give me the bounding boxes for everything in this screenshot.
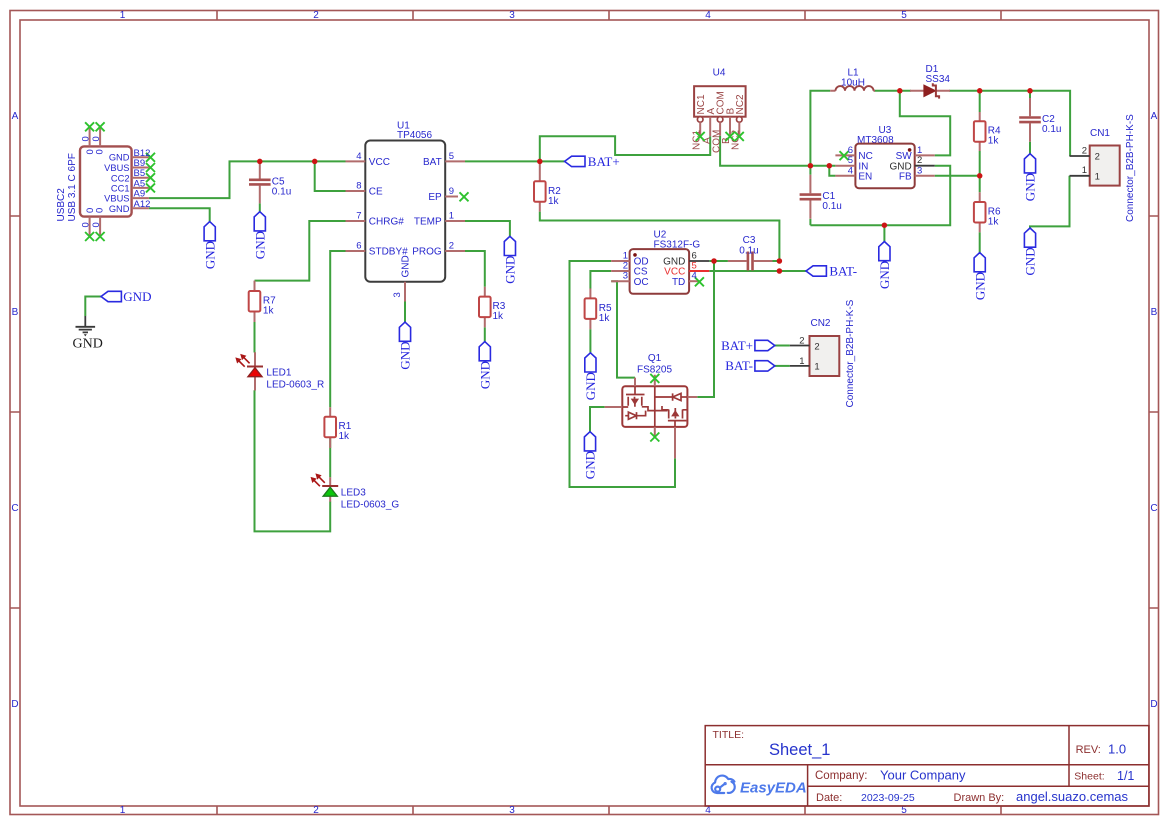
wire D1 cathode to CN1 pin2: [949, 91, 1070, 156]
svg-text:LED-0603_R: LED-0603_R: [266, 380, 324, 391]
capacitor C5 0.1u: [249, 163, 291, 204]
wire U3 GND rail: [810, 166, 950, 226]
svg-text:5: 5: [449, 151, 454, 162]
svg-text:LED-0603_G: LED-0603_G: [341, 499, 400, 510]
svg-text:1/1: 1/1: [1117, 769, 1134, 783]
svg-text:0: 0: [81, 136, 92, 141]
wire U2 GND6 to C3 left: [709, 260, 728, 262]
svg-text:8: 8: [356, 180, 361, 191]
svg-text:2: 2: [313, 805, 319, 816]
svg-text:GND: GND: [123, 289, 151, 304]
svg-text:Drawn By:: Drawn By:: [954, 792, 1005, 804]
svg-text:0: 0: [91, 136, 102, 141]
wire LED common bottom: [255, 390, 331, 531]
svg-text:1k: 1k: [988, 217, 1000, 228]
net flag BAT+ at CN2: [721, 338, 775, 353]
svg-text:CN1: CN1: [1090, 128, 1110, 139]
svg-text:2: 2: [799, 335, 804, 346]
svg-text:C: C: [1150, 503, 1157, 514]
svg-text:CN2: CN2: [810, 318, 830, 329]
svg-text:0.1u: 0.1u: [1042, 124, 1061, 135]
wire USB A12 to GND flag: [149, 208, 210, 221]
svg-text:U4: U4: [713, 68, 726, 79]
net flag BAT- at CN2: [725, 358, 775, 373]
svg-text:3: 3: [509, 10, 515, 21]
wire STDBY# to R1: [330, 251, 345, 407]
wire C5 to GND flag: [259, 203, 261, 211]
svg-text:GND: GND: [73, 337, 103, 352]
svg-text:1: 1: [814, 362, 819, 373]
svg-text:GND: GND: [109, 204, 130, 214]
capacitor C2 0.1u: [1019, 98, 1061, 142]
junction at C5/VCC: [257, 159, 263, 165]
svg-text:TEMP: TEMP: [414, 217, 442, 228]
svg-text:Connector_B2B-PH-K-S: Connector_B2B-PH-K-S: [845, 299, 856, 407]
wire R4 leads: [979, 91, 981, 176]
svg-text:1: 1: [1082, 165, 1087, 176]
svg-text:NC2: NC2: [735, 94, 746, 114]
svg-text:2: 2: [1095, 152, 1100, 163]
svg-text:D: D: [11, 699, 18, 710]
svg-text:1: 1: [1095, 172, 1100, 183]
wire PROG to R3: [465, 251, 485, 287]
svg-text:1k: 1k: [493, 311, 505, 322]
svg-text:5: 5: [901, 10, 907, 21]
svg-text:B: B: [12, 307, 19, 318]
wire OC to Q1 gate: [611, 281, 635, 377]
LED LED1 LED-0603_R: [237, 352, 325, 390]
svg-text:2: 2: [814, 341, 819, 352]
svg-text:B: B: [1151, 307, 1158, 318]
net flag GND under USB A12: [202, 222, 217, 270]
svg-text:4: 4: [356, 151, 361, 162]
svg-text:EP: EP: [428, 192, 442, 203]
svg-text:PROG: PROG: [412, 247, 442, 258]
svg-text:EasyEDA: EasyEDA: [740, 780, 807, 797]
wire FB to R4/R6: [935, 175, 980, 177]
wire R6 leads: [979, 176, 981, 253]
wire EN jog: [829, 166, 835, 176]
connector CN2 B2B-PH-K-S: [790, 299, 856, 407]
junction at C2 top: [1027, 88, 1033, 94]
wire BAT+ riser to U4 A: [540, 136, 710, 161]
svg-text:2: 2: [1082, 145, 1087, 156]
svg-text:BAT-: BAT-: [725, 358, 753, 373]
svg-text:Date:: Date:: [816, 792, 842, 804]
svg-text:1: 1: [120, 805, 126, 816]
svg-text:Q1: Q1: [648, 353, 662, 364]
wire U2 VCC5 to BAT- flag: [709, 270, 806, 272]
net flag GND under CN1: [1023, 228, 1038, 276]
net flag GND under R6: [972, 253, 987, 301]
svg-text:Sheet:: Sheet:: [1074, 771, 1104, 783]
wire OD to Q1 bottom right: [570, 261, 676, 487]
net flag GND under C2: [1023, 154, 1038, 202]
svg-text:L1: L1: [847, 67, 859, 78]
svg-text:4: 4: [848, 165, 853, 176]
svg-text:USBC2: USBC2: [56, 188, 67, 222]
svg-text:VCC: VCC: [369, 157, 390, 168]
capacitor C3 0.1u: [728, 235, 773, 271]
svg-text:6: 6: [356, 240, 361, 251]
net flag GND under U3: [877, 242, 892, 290]
wire U4 COM to U3 IN: [720, 136, 835, 166]
svg-text:USB 3.1 C 6PF: USB 3.1 C 6PF: [67, 153, 78, 221]
net flag BAT- at U2: [806, 263, 857, 278]
junction at FB/R4/R6: [977, 173, 983, 179]
svg-text:0: 0: [91, 222, 102, 227]
resistor R4 1k: [974, 112, 1001, 151]
svg-text:Company:: Company:: [815, 770, 867, 782]
svg-text:BAT+: BAT+: [721, 338, 753, 353]
IC U1 TP4056: [346, 120, 469, 301]
IC U2 FS312F-G: [611, 229, 709, 294]
svg-text:1: 1: [799, 356, 804, 367]
wire SW jog: [900, 91, 950, 156]
wire L1 left / C1 node: [810, 91, 830, 175]
net flag GND left: [101, 289, 151, 304]
svg-text:C: C: [11, 503, 18, 514]
junction at R4 top: [977, 88, 983, 94]
svg-text:3: 3: [509, 805, 515, 816]
svg-text:7: 7: [356, 210, 361, 221]
LED LED3 LED-0603_G: [312, 475, 400, 511]
junction at BAT/R2: [537, 159, 543, 165]
svg-text:LED1: LED1: [266, 368, 291, 379]
svg-text:5: 5: [901, 805, 907, 816]
svg-text:FB: FB: [899, 171, 912, 182]
net flag GND under R5: [583, 353, 598, 401]
svg-text:0.1u: 0.1u: [272, 186, 291, 197]
IC U3 MT3608: [835, 125, 934, 188]
svg-text:9: 9: [449, 186, 454, 197]
resistor R7 1k: [249, 281, 276, 322]
svg-text:CE: CE: [369, 187, 383, 198]
svg-text:1k: 1k: [339, 431, 351, 442]
svg-text:D: D: [1150, 699, 1157, 710]
svg-text:VBUS: VBUS: [104, 194, 129, 204]
net flag BAT+ at U1: [565, 154, 620, 169]
svg-text:TD: TD: [672, 277, 685, 288]
svg-text:GND: GND: [109, 153, 130, 163]
diode D1 SS34: [910, 64, 950, 99]
resistor R6 1k: [974, 192, 1001, 232]
svg-text:Connector_B2B-PH-K-S: Connector_B2B-PH-K-S: [1125, 114, 1136, 222]
svg-text:0.1u: 0.1u: [822, 201, 841, 212]
wire R1 to LED3: [329, 437, 331, 477]
wire BAT+ flag to CN2 pin2: [775, 345, 790, 347]
svg-text:BAT-: BAT-: [829, 263, 857, 278]
svg-text:3: 3: [917, 165, 922, 176]
svg-text:TITLE:: TITLE:: [713, 729, 745, 741]
wire C1 bottom: [809, 219, 811, 225]
svg-text:1.0: 1.0: [1108, 742, 1126, 757]
svg-text:2: 2: [449, 240, 454, 251]
net flag GND under U1 pin3: [398, 322, 413, 370]
svg-text:VBUS: VBUS: [104, 163, 129, 173]
wire U1 GND3 to flag: [404, 302, 406, 323]
wire GND flag to ground symbol: [85, 297, 101, 317]
wire BAT- flag to CN2 pin1: [775, 365, 790, 367]
wire Q1 left to GND flag: [590, 407, 605, 432]
transistor Q1 FS8205: [605, 353, 698, 458]
junction at GND rail: [882, 222, 888, 228]
junction at IN/EN: [827, 163, 833, 169]
svg-text:Sheet_1: Sheet_1: [769, 741, 830, 759]
svg-text:3: 3: [623, 271, 628, 282]
junction at IN/L1: [808, 163, 814, 169]
svg-text:3: 3: [392, 292, 403, 297]
wire R2 bottom to C3 right: [540, 212, 780, 261]
svg-text:0.1u: 0.1u: [739, 245, 758, 256]
wire R5 to GND flag: [589, 329, 591, 353]
wire VBUS: USB A9 to U1 VCC: [149, 161, 346, 198]
svg-text:SS34: SS34: [926, 74, 951, 85]
connector USBC2 USB 3.1 C 6PF: [56, 122, 155, 241]
resistor R3 1k: [479, 287, 506, 328]
wire C3 right link: [773, 260, 780, 262]
resistor R1 1k: [324, 407, 351, 448]
svg-text:2: 2: [313, 10, 319, 21]
svg-text:OC: OC: [634, 277, 649, 288]
svg-text:REV:: REV:: [1076, 744, 1101, 756]
wire CE branch: [315, 161, 346, 191]
svg-text:angel.suazo.cemas: angel.suazo.cemas: [1016, 789, 1129, 804]
wire C2 leads: [1029, 91, 1031, 154]
connector CN1 B2B-PH-K-S: [1070, 114, 1137, 222]
svg-text:4: 4: [705, 805, 711, 816]
svg-text:A: A: [1151, 111, 1158, 122]
wire L1 to D1 anode: [874, 90, 912, 92]
svg-text:CC2: CC2: [111, 173, 130, 183]
svg-text:2023-09-25: 2023-09-25: [861, 792, 915, 804]
svg-text:BAT: BAT: [423, 157, 442, 168]
junction at VCC/BAT-: [777, 268, 783, 274]
junction at C3 right: [777, 258, 783, 264]
wire CS to R5: [590, 271, 611, 289]
net flag GND under R3: [477, 342, 492, 390]
net flag GND under C5: [252, 212, 267, 260]
junction at C3 left: [711, 258, 717, 264]
resistor R5 1k: [585, 289, 612, 330]
svg-text:LED3: LED3: [341, 487, 366, 498]
wire TEMP to GND flag: [465, 221, 510, 236]
svg-text:FS8205: FS8205: [637, 364, 672, 375]
svg-text:0: 0: [95, 208, 106, 213]
wire CHRG# to R7: [255, 221, 346, 281]
svg-text:4: 4: [705, 10, 711, 21]
wire GND rail to flag: [883, 225, 885, 241]
svg-text:BAT+: BAT+: [588, 154, 620, 169]
svg-text:4: 4: [692, 271, 697, 282]
svg-text:A: A: [12, 111, 19, 122]
svg-text:1k: 1k: [599, 313, 611, 324]
junction at CE branch: [312, 159, 318, 165]
svg-text:EN: EN: [858, 171, 872, 182]
net flag GND under TEMP: [503, 236, 518, 283]
svg-text:1k: 1k: [988, 136, 1000, 147]
junction at L1/SW: [897, 88, 903, 94]
svg-text:1k: 1k: [263, 306, 275, 317]
svg-text:CC1: CC1: [111, 184, 130, 194]
svg-text:0: 0: [95, 149, 106, 154]
svg-text:TP4056: TP4056: [397, 130, 432, 141]
switch U4: [691, 68, 746, 154]
ground earth symbol: [73, 316, 103, 352]
svg-text:Your Company: Your Company: [880, 768, 966, 783]
svg-text:1k: 1k: [548, 196, 560, 207]
wire R7 to LED1: [254, 322, 256, 353]
svg-text:GND: GND: [401, 255, 412, 277]
net flag GND under Q1: [583, 432, 598, 480]
svg-text:1: 1: [120, 10, 126, 21]
inductor L1 10uH: [830, 67, 875, 91]
svg-text:CHRG#: CHRG#: [369, 217, 404, 228]
svg-text:0: 0: [81, 222, 92, 227]
resistor R2 1k: [534, 163, 561, 212]
wire BAT to BAT+ flag: [465, 160, 565, 162]
svg-text:A12: A12: [134, 199, 151, 210]
wire BAT- riser to Q1 right: [697, 261, 714, 397]
capacitor C1 0.1u: [800, 175, 842, 219]
svg-text:10uH: 10uH: [841, 78, 865, 89]
svg-text:1: 1: [449, 210, 454, 221]
wire CN1 pin1 to GND flag: [1030, 176, 1070, 228]
wire R3 to GND flag: [484, 327, 486, 341]
